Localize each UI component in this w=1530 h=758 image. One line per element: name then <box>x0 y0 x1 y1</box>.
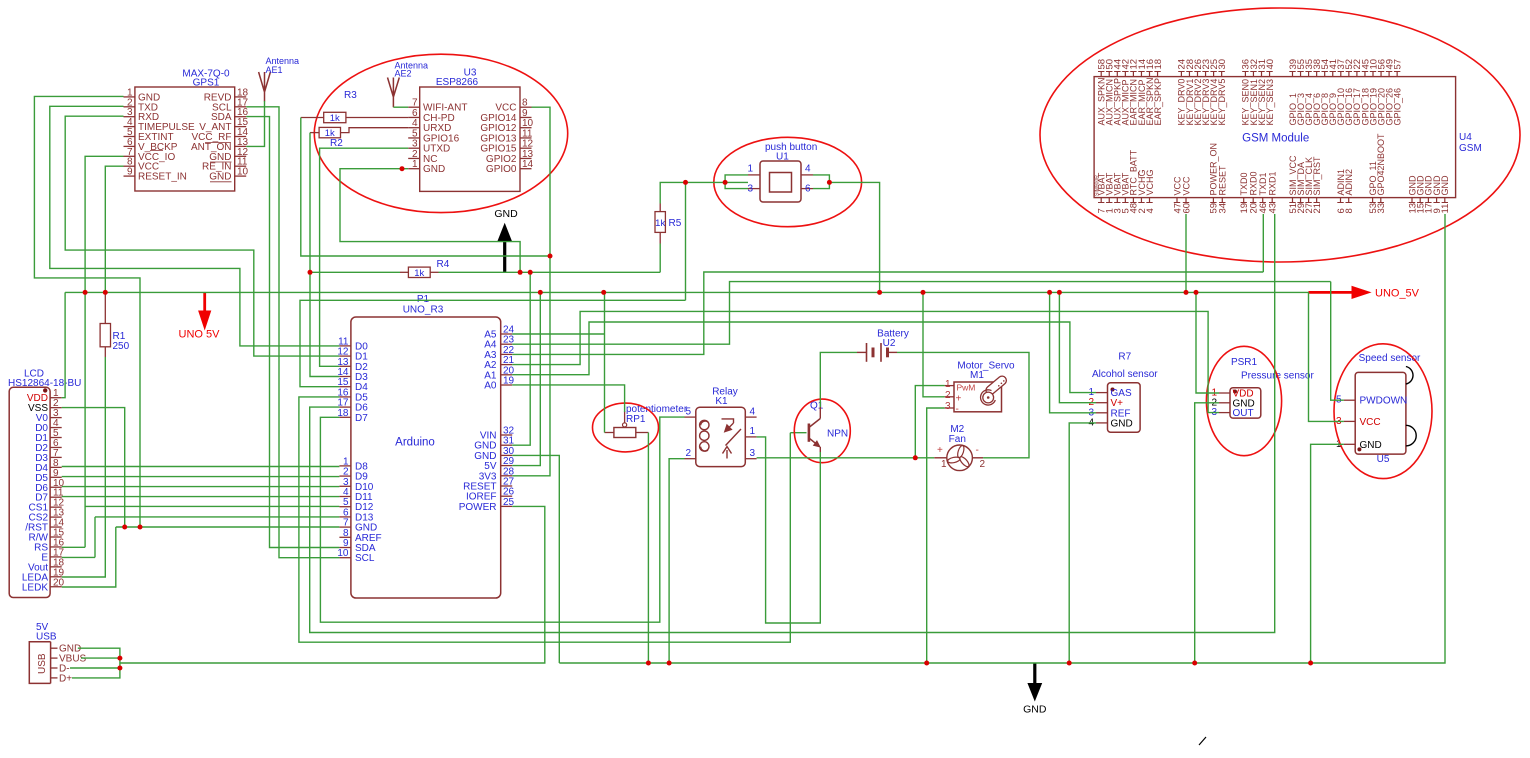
svg-text:USB: USB <box>37 653 48 674</box>
IC P1 UNO_R3 Arduino <box>351 294 501 598</box>
wire relay pin1 to NPN emitter <box>757 437 821 623</box>
svg-text:Speed sensor: Speed sensor <box>1359 353 1421 364</box>
push button U1 <box>747 142 817 202</box>
svg-text:9: 9 <box>127 167 133 178</box>
battery U2 <box>857 329 909 362</box>
wire LCD D7 to Arduino D11 <box>62 496 340 498</box>
svg-text:R3: R3 <box>344 90 357 101</box>
svg-text:40: 40 <box>1265 59 1276 70</box>
wire LCD D4 to Arduino D8 <box>62 466 340 468</box>
svg-text:D7: D7 <box>355 413 368 424</box>
wire LCD D6 to Arduino D10 <box>62 486 340 488</box>
wire battery left to NPN collector <box>820 352 857 407</box>
antenna AE1 <box>259 56 299 102</box>
svg-text:GPO42NBOOT: GPO42NBOOT <box>1376 133 1386 196</box>
wire R7 GND to bottom rail <box>1069 423 1096 663</box>
highlight ellipse around PSR1 <box>1206 346 1281 455</box>
svg-text:TXD1: TXD1 <box>1258 172 1268 195</box>
svg-text:2: 2 <box>685 448 691 459</box>
wire LCD CS2 column to D13 row <box>94 517 96 558</box>
stray tick mark <box>1199 737 1206 745</box>
wire ESP GND net <box>340 169 520 273</box>
junction dots on GND line <box>308 254 553 275</box>
wire PWDOWN riser <box>1331 282 1344 401</box>
wire LCD VSS to RST row <box>62 408 125 527</box>
sensor R7 Alcohol sensor <box>1088 352 1158 433</box>
power flag UNO_5V <box>1309 286 1420 300</box>
svg-text:GPIO0: GPIO0 <box>486 164 517 175</box>
highlight ellipse around Q1 <box>794 399 850 463</box>
svg-text:11: 11 <box>1440 204 1451 214</box>
svg-text:+: + <box>937 445 943 456</box>
highlight ellipse around RP1 <box>593 403 659 452</box>
fan M2 <box>934 424 985 471</box>
wire R3 to ESP VCC column <box>301 118 550 257</box>
svg-text:RXD0: RXD0 <box>1249 171 1259 195</box>
svg-text:USB: USB <box>36 632 57 643</box>
svg-text:POWER: POWER <box>459 502 497 513</box>
wire A4 to GSM RXD1 line and PWDOWN <box>512 282 1330 345</box>
wire Arduino D5 to NPN base <box>299 397 790 642</box>
transistor Q1 NPN <box>790 401 848 453</box>
wire rail to U5 VCC <box>1309 292 1344 421</box>
svg-text:U5: U5 <box>1377 454 1390 465</box>
resistor R4 1k <box>400 259 450 279</box>
svg-text:43: 43 <box>1268 203 1279 214</box>
svg-text:1: 1 <box>941 459 947 470</box>
power flag UNO 5V <box>179 292 221 340</box>
svg-text:M1: M1 <box>970 370 984 381</box>
wire rail to R7 REF <box>1050 292 1096 412</box>
svg-text:5: 5 <box>685 407 691 418</box>
wire ESP VCC down to Arduino 3V3 <box>512 107 550 476</box>
svg-text:-: - <box>956 404 959 415</box>
svg-text:2: 2 <box>945 390 951 401</box>
GSM top pins <box>1097 59 1404 126</box>
svg-text:6: 6 <box>805 184 811 195</box>
svg-text:NPN: NPN <box>827 429 848 440</box>
svg-text:PWDOWN: PWDOWN <box>1360 396 1408 407</box>
svg-text:R7: R7 <box>1118 352 1131 363</box>
svg-text:1k: 1k <box>655 218 665 229</box>
svg-text:R4: R4 <box>437 259 450 270</box>
svg-text:RP1: RP1 <box>626 414 646 425</box>
wire R5 bottom corner <box>659 244 661 273</box>
wire push button right pins <box>813 175 829 189</box>
svg-text:VCHG: VCHG <box>1145 169 1155 195</box>
svg-text:4: 4 <box>805 164 811 175</box>
wire GPS ANT_ON to antenna AE1 <box>246 101 264 146</box>
wire GPS GND pin1 net <box>34 96 140 527</box>
wire GSM TXD1 riser <box>1262 214 1264 272</box>
wire rail to R7 V+ <box>1059 292 1096 402</box>
wire PSR1 GND to bottom rail <box>1195 403 1219 663</box>
svg-text:Q1: Q1 <box>810 401 824 412</box>
svg-text:P1: P1 <box>417 294 430 305</box>
junction dot fan line <box>913 455 918 460</box>
wire Arduino D7 to relay pin5 <box>320 417 684 622</box>
svg-text:KEY_DRV5: KEY_DRV5 <box>1217 79 1227 126</box>
Arduino right pins A5-A0 <box>484 325 514 392</box>
svg-text:GND: GND <box>1360 440 1382 451</box>
svg-text:PwM: PwM <box>957 383 976 393</box>
wire A3 to GSM TXD1 line <box>512 272 1263 354</box>
wire GPS VCC to rail via R1 column <box>105 166 123 292</box>
junction dots on 5V rail <box>83 290 1199 295</box>
wire 5V rail <box>65 291 1308 293</box>
svg-text:3: 3 <box>750 448 756 459</box>
wire U5 GND to bottom rail <box>1311 444 1344 663</box>
junction dots USB column <box>117 656 122 671</box>
svg-text:ADIN2: ADIN2 <box>1344 169 1354 196</box>
motor M1 Motor_Servo <box>945 361 1015 416</box>
wire USB GND to column <box>72 648 120 678</box>
wire push button left line <box>660 182 748 203</box>
highlight ellipse around U3 <box>314 54 567 212</box>
wire motor pin1 to fan line <box>915 386 944 458</box>
wire D13 row to Arduino D13 <box>95 516 339 518</box>
svg-text:AE2: AE2 <box>395 69 412 79</box>
svg-text:30: 30 <box>1217 59 1228 70</box>
highlight ellipse around U4 <box>1040 8 1520 262</box>
svg-text:PSR1: PSR1 <box>1231 357 1258 368</box>
svg-text:+: + <box>956 393 962 404</box>
wire motor pin3 to GND rail <box>927 408 945 663</box>
svg-text:8: 8 <box>1344 208 1355 213</box>
wire R2 column to Arduino D3 <box>310 133 339 377</box>
svg-text:VCC: VCC <box>1181 176 1191 196</box>
antenna AE2 <box>388 60 429 107</box>
svg-text:1: 1 <box>750 426 756 437</box>
svg-text:57: 57 <box>1392 59 1403 70</box>
wire Arduino GND31 riser <box>512 272 530 445</box>
wire USB D- to column <box>70 667 120 669</box>
Arduino right power pins <box>459 426 515 513</box>
svg-text:Alcohol sensor: Alcohol sensor <box>1092 369 1158 380</box>
svg-text:GND: GND <box>1023 704 1047 716</box>
wire GPS SDA to Arduino SDA <box>246 117 339 548</box>
potentiometer RP1 <box>605 404 688 438</box>
IC GPS1 MAX-7Q-0 <box>124 69 249 192</box>
svg-text:OUT: OUT <box>1233 408 1254 419</box>
sensor U5 Speed sensor <box>1336 353 1421 465</box>
wire push button branch to D4 line <box>685 182 687 300</box>
svg-text:U2: U2 <box>883 338 896 349</box>
svg-text:GPIO_46: GPIO_46 <box>1392 88 1402 126</box>
svg-text:1k: 1k <box>330 113 340 124</box>
wire 5V riser to Arduino 5V <box>512 292 540 465</box>
svg-text:3: 3 <box>747 184 753 195</box>
highlight ellipse around U1 <box>714 137 862 226</box>
ground symbol GND (upper) <box>494 208 518 272</box>
svg-text:GND: GND <box>423 164 445 175</box>
wire A2 to PSR1 OUT <box>512 311 1219 412</box>
wire A1 to R7 GAS <box>512 322 1096 393</box>
relay K1 <box>685 387 757 467</box>
svg-text:K1: K1 <box>715 396 728 407</box>
svg-text:250: 250 <box>113 341 130 352</box>
wire antenna AE2 to ESP WIFI-ANT <box>393 106 408 108</box>
ground symbol GND (lower) <box>1023 663 1047 716</box>
wire GND line right of R4 <box>439 271 661 273</box>
wire GSM VCC60 to rail <box>1185 214 1187 292</box>
svg-text:TXD0: TXD0 <box>1239 172 1249 195</box>
svg-text:33: 33 <box>1376 203 1387 214</box>
svg-text:R5: R5 <box>669 218 682 229</box>
svg-text:3: 3 <box>945 401 951 412</box>
wire VDD net from rail to LCD pin1 <box>62 292 65 397</box>
wire rail riser to potentiometer left <box>604 292 606 432</box>
junction dot ESP GND pin <box>400 166 405 171</box>
wire push button left pins <box>725 175 748 189</box>
svg-text:21: 21 <box>1312 203 1323 214</box>
svg-text:1k: 1k <box>414 268 424 279</box>
svg-text:UNO 5V: UNO 5V <box>179 329 221 341</box>
wire relay pin3 to fan line <box>757 457 935 459</box>
svg-text:2: 2 <box>980 459 986 470</box>
svg-text:1: 1 <box>945 379 951 390</box>
wire GPS TXD to Arduino D0 <box>50 106 340 346</box>
wire GND row to Arduino GND <box>116 526 340 528</box>
svg-text:1: 1 <box>747 164 753 175</box>
svg-text:U4: U4 <box>1459 132 1472 143</box>
connector USB <box>29 622 86 684</box>
svg-text:GSM: GSM <box>1459 143 1482 154</box>
sensor PSR1 Pressure sensor <box>1211 357 1314 419</box>
svg-text:Arduino: Arduino <box>395 437 435 449</box>
svg-text:SCL: SCL <box>355 553 375 564</box>
wire D12 row from column to Arduino D12 <box>85 505 339 507</box>
svg-text:R2: R2 <box>330 138 343 149</box>
svg-text:Fan: Fan <box>949 434 966 445</box>
svg-text:ESP8266: ESP8266 <box>436 77 479 88</box>
svg-text:push button: push button <box>765 142 817 153</box>
wire GSM RXD1 to Arduino D6 line <box>310 214 1275 633</box>
svg-text:18: 18 <box>1153 59 1164 70</box>
resistor R3 1k <box>301 90 408 124</box>
svg-text:10: 10 <box>237 167 249 178</box>
svg-text:60: 60 <box>1181 203 1192 214</box>
svg-text:Motor_Servo: Motor_Servo <box>957 361 1015 372</box>
svg-text:GND: GND <box>209 172 231 183</box>
svg-text:RESET: RESET <box>1218 165 1228 196</box>
wire GPS SCL to Arduino SCL <box>246 107 339 558</box>
svg-text:D+: D+ <box>59 673 72 684</box>
resistor R1 250 <box>100 292 130 357</box>
IC LCD HS12864-18-BU <box>8 369 81 598</box>
junction dots RST row <box>122 525 142 530</box>
wire potentiometer right to GND rail <box>647 433 649 664</box>
junction dots bottom rail <box>646 661 1313 666</box>
wire ESP UTXD to Arduino D2 <box>320 148 409 366</box>
IC U3 ESP8266 <box>408 68 533 192</box>
svg-text:UNO_5V: UNO_5V <box>1375 288 1420 300</box>
wire A0 to potentiometer wiper <box>512 385 624 412</box>
wire LCD LEDK riser <box>62 527 116 587</box>
resistor R5 1k <box>655 204 682 244</box>
wire LCD E to column <box>62 556 95 558</box>
svg-text:A0: A0 <box>484 381 497 392</box>
svg-text:14: 14 <box>522 159 534 170</box>
svg-text:1: 1 <box>412 159 418 170</box>
resistor R2 1k <box>310 127 408 149</box>
svg-text:GND: GND <box>1111 418 1133 429</box>
svg-text:UNO_R3: UNO_R3 <box>403 305 444 316</box>
wire R1 bottom to LCD LEDA <box>62 357 106 577</box>
wire GPS VCC_IO to rail and LCD CS1 column <box>85 156 123 547</box>
wire rail to motor pin2 <box>923 292 945 396</box>
svg-text:RESET_IN: RESET_IN <box>138 172 187 183</box>
junction dots push button row <box>683 180 832 185</box>
svg-text:4: 4 <box>1145 208 1156 213</box>
svg-text:-: - <box>976 445 979 456</box>
svg-text:GND: GND <box>1440 175 1450 196</box>
wire fan to battery right <box>897 352 1029 457</box>
wire bottom GND rail <box>559 214 1445 663</box>
wire USB VBUS to column <box>81 657 120 659</box>
wire Arduino GND30 to bottom rail <box>512 455 559 663</box>
highlight ellipse around U5 <box>1334 344 1432 479</box>
wire push button to rail <box>829 182 879 292</box>
wire rail to PSR1 VDD <box>1196 292 1219 393</box>
svg-text:4: 4 <box>750 407 756 418</box>
svg-text:AE1: AE1 <box>266 65 283 75</box>
GSM bottom pins <box>1097 133 1452 214</box>
wire GND line R4 R5 <box>310 271 400 273</box>
wire A5 to rail riser <box>512 333 604 335</box>
svg-text:KEY_SEN3: KEY_SEN3 <box>1265 79 1275 126</box>
svg-text:SIM_RST: SIM_RST <box>1312 156 1322 196</box>
svg-text:VCC: VCC <box>1360 417 1381 428</box>
wire relay pin2 to GND rail <box>669 459 684 663</box>
wire D4 line <box>300 300 686 386</box>
svg-text:GND: GND <box>494 208 518 220</box>
svg-text:34: 34 <box>1218 203 1229 214</box>
Arduino left pins D0-D7 <box>337 336 368 423</box>
svg-text:LEDK: LEDK <box>22 582 48 593</box>
IC U4 GSM Module <box>1094 77 1482 198</box>
svg-text:EAR_SPKP: EAR_SPKP <box>1153 78 1163 126</box>
wire GPS RXD to Arduino D1 <box>65 116 339 356</box>
wire Arduino POWER to USB rail <box>120 506 545 663</box>
wire LCD RS to column <box>62 546 85 548</box>
Arduino left pins D8-SCL <box>337 456 381 564</box>
wire LCD D5 to Arduino D9 <box>62 476 340 478</box>
svg-text:GPS1: GPS1 <box>193 78 220 89</box>
svg-text:GSM Module: GSM Module <box>1242 133 1309 145</box>
svg-text:RXD1: RXD1 <box>1268 171 1278 195</box>
